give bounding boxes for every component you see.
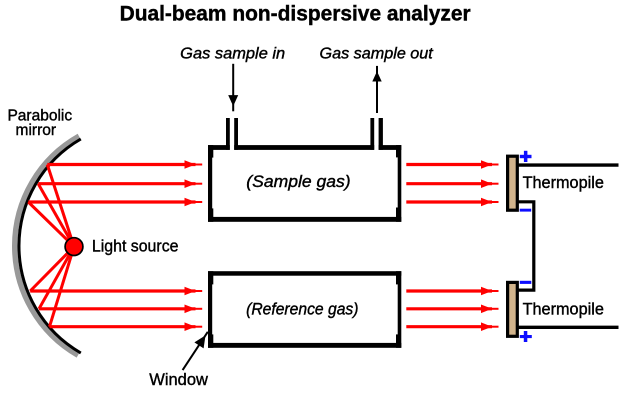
thermopile 1 minus	[520, 209, 532, 212]
beam S1 right	[406, 160, 498, 169]
thermopile 2 minus	[520, 281, 532, 284]
thermopile 2 bar	[508, 282, 518, 336]
beam S2 right	[406, 179, 498, 188]
light source	[65, 238, 83, 256]
thermopile 2 plus	[520, 331, 532, 342]
beam R1 left	[30, 287, 202, 296]
svg-text:Gas sample out: Gas sample out	[320, 46, 434, 63]
beam R1 right	[406, 287, 498, 296]
fan ray to S2	[38, 184, 74, 247]
gas out arrow	[372, 66, 381, 113]
beam R2 left	[39, 305, 202, 314]
reference cell walls	[208, 271, 401, 348]
beam R2 right	[406, 305, 498, 314]
gas inlet tube	[226, 118, 238, 150]
sample cell window cutouts	[212, 158, 214, 209]
fan ray to R3	[50, 247, 75, 327]
reference cell window cutouts	[212, 284, 214, 334]
svg-text:(Reference gas): (Reference gas)	[246, 300, 358, 318]
fan ray to S1	[47, 165, 74, 247]
beam S3 right	[406, 198, 498, 207]
thermopile 1 bar	[508, 156, 518, 210]
beam R3 left	[50, 322, 203, 331]
svg-text:(Sample gas): (Sample gas)	[246, 173, 350, 191]
beam R3 right	[406, 322, 498, 331]
thermopile 1 plus	[520, 151, 532, 162]
svg-text:mirror: mirror	[16, 122, 57, 139]
svg-text:Gas sample in: Gas sample in	[180, 46, 285, 63]
sample cell walls	[208, 145, 401, 222]
svg-text:Light source: Light source	[92, 236, 179, 255]
thermopile 2 output wire	[518, 326, 619, 329]
fan ray to R1	[30, 247, 74, 291]
beam S2 left	[38, 179, 202, 188]
fan ray to S3	[28, 202, 74, 247]
window arrow	[183, 332, 208, 370]
svg-text:Dual-beam non-dispersive analy: Dual-beam non-dispersive analyzer	[120, 3, 471, 26]
beam S3 left	[28, 198, 202, 207]
parabolic mirror (gray outer band)	[15, 136, 79, 355]
fan ray to R2	[39, 247, 74, 309]
svg-text:Thermopile: Thermopile	[523, 301, 604, 319]
gas in arrow	[228, 64, 238, 112]
connecting wire	[518, 202, 534, 290]
gas outlet tube	[370, 118, 383, 150]
thermopile 1 output wire	[518, 163, 619, 166]
parabolic mirror inner edge (black arc)	[19, 139, 81, 353]
sample cell top wall bore gaps	[230, 144, 234, 151]
beam S1 left	[47, 160, 202, 169]
svg-text:Thermopile: Thermopile	[523, 174, 604, 192]
svg-text:Window: Window	[149, 371, 208, 389]
